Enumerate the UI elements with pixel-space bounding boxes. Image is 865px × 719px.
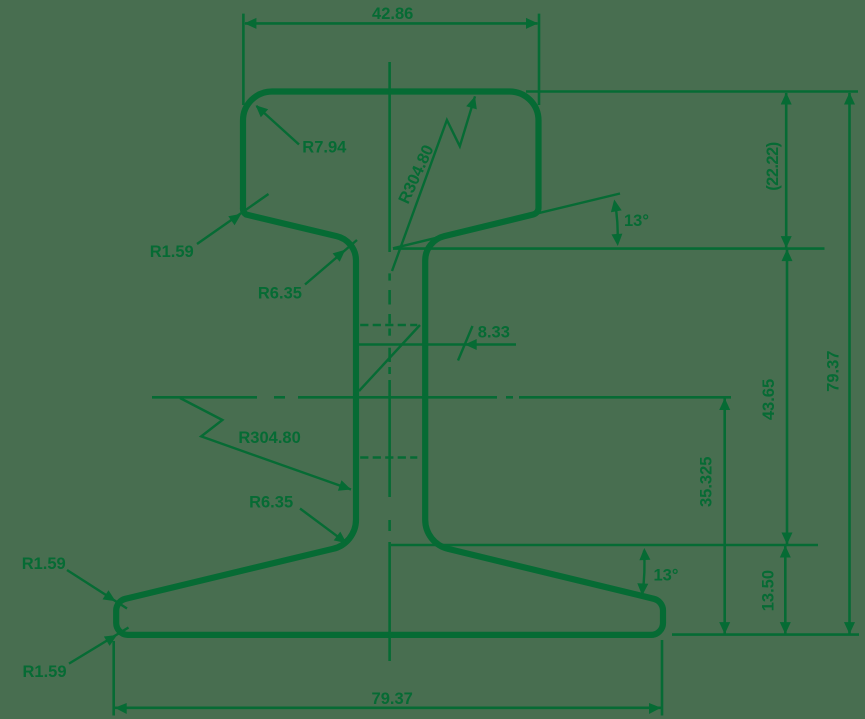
extension line head top right xyxy=(526,90,858,93)
leader R304.80 lower with zigzag xyxy=(180,398,351,490)
web tangent dashed line lower xyxy=(360,456,417,458)
svg-text:8.33: 8.33 xyxy=(478,323,510,341)
angle 13 deg lower: arc arrow xyxy=(643,551,645,594)
leader R6.35 web upper left xyxy=(305,240,357,285)
dimension 43.65 right xyxy=(786,250,789,544)
dimension 42.86 top xyxy=(243,14,539,105)
callout 8.33 slash through web xyxy=(359,325,420,391)
svg-text:R304.80: R304.80 xyxy=(238,429,300,447)
horizontal centerline xyxy=(152,396,731,399)
svg-text:13.50: 13.50 xyxy=(760,570,778,611)
rail profile outline xyxy=(116,92,663,635)
leader R6.35 web lower left xyxy=(300,509,347,544)
callout 8.33 slash at arrow xyxy=(458,326,473,361)
angle 13 deg upper: slope extension line xyxy=(393,194,620,249)
angle 13 deg upper: arc arrow xyxy=(615,202,618,243)
leader R7.94 xyxy=(257,106,300,145)
svg-text:R1.59: R1.59 xyxy=(23,663,67,681)
svg-text:43.65: 43.65 xyxy=(760,379,778,420)
dimension 35.325 right xyxy=(723,399,726,634)
vertical centerline xyxy=(388,62,391,661)
svg-text:R6.35: R6.35 xyxy=(249,494,293,512)
svg-text:R1.59: R1.59 xyxy=(22,555,66,573)
leader R1.59 head left corner xyxy=(197,194,269,244)
leader R1.59 foot tip upper xyxy=(67,570,127,609)
extension line head bottom right xyxy=(393,247,825,250)
dimension 79.37 bottom xyxy=(114,640,662,716)
leader R1.59 foot tip lower xyxy=(69,628,129,664)
svg-text:13°: 13° xyxy=(654,567,679,585)
svg-text:R7.94: R7.94 xyxy=(302,139,347,157)
svg-text:79.37: 79.37 xyxy=(372,690,413,708)
svg-text:13°: 13° xyxy=(624,212,649,230)
svg-text:42.86: 42.86 xyxy=(372,5,413,23)
dimension 13.50 right xyxy=(784,546,787,634)
svg-text:R1.59: R1.59 xyxy=(150,243,194,261)
svg-text:R6.35: R6.35 xyxy=(258,284,302,302)
extension line foot top right xyxy=(391,544,818,547)
svg-text:79.37: 79.37 xyxy=(825,351,843,392)
callout 8.33 web: dimension line xyxy=(357,343,516,345)
dimension 79.37 right xyxy=(848,93,851,634)
web tangent dashed line upper xyxy=(360,324,417,326)
extension line foot bottom right xyxy=(672,633,859,636)
svg-text:35.325: 35.325 xyxy=(698,457,716,507)
leader R304.80 upper with zigzag xyxy=(392,96,475,271)
svg-text:(22.22): (22.22) xyxy=(764,142,782,191)
dimension (22.22) right xyxy=(785,93,788,248)
